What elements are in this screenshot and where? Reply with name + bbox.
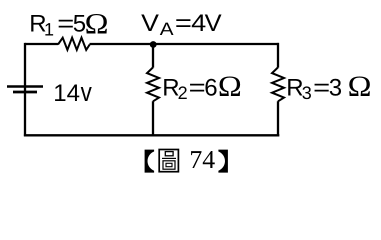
- svg-text:14: 14: [53, 80, 80, 107]
- node VA junction dot: [150, 41, 157, 48]
- resistor R1: [58, 38, 90, 50]
- svg-text:=: =: [189, 74, 206, 101]
- svg-text:=: =: [57, 10, 74, 37]
- svg-text:=: =: [175, 10, 192, 37]
- svg-text:2: 2: [178, 83, 188, 103]
- svg-text:V: V: [205, 10, 222, 37]
- wire top-middle segment: [90, 43, 154, 45]
- wire top-right segment: [153, 43, 279, 45]
- label R3=3ohm: [286, 71, 371, 103]
- svg-text:3: 3: [302, 83, 312, 103]
- label R2=6ohm: [162, 71, 242, 103]
- svg-text:6: 6: [204, 74, 217, 101]
- svg-text:=: =: [313, 74, 330, 101]
- svg-text:V: V: [141, 10, 159, 37]
- battery 14v negative plate: [13, 91, 37, 94]
- battery 14v positive plate: [7, 85, 43, 88]
- svg-text:Ω: Ω: [348, 71, 372, 103]
- wire middle branch upper: [152, 44, 154, 68]
- wire bottom segment: [24, 134, 279, 136]
- caption figure number 74: [189, 145, 215, 174]
- caption CJK character tu (figure): [159, 150, 178, 172]
- resistor R3: [272, 67, 284, 101]
- caption right lenticular bracket: [218, 150, 228, 173]
- svg-text:Ω: Ω: [218, 71, 242, 103]
- svg-text:v: v: [81, 77, 93, 107]
- svg-text:A: A: [160, 19, 174, 39]
- svg-text:Ω: Ω: [85, 8, 109, 40]
- svg-text:74: 74: [189, 145, 215, 174]
- label R1=5ohm: [29, 8, 108, 40]
- label 14v battery value: [53, 77, 92, 107]
- svg-text:1: 1: [44, 19, 54, 39]
- wire right branch lower: [277, 101, 279, 136]
- wire right branch upper: [277, 43, 279, 68]
- resistor R2: [147, 67, 159, 101]
- wire top-left segment: [25, 43, 58, 45]
- wire left branch: [24, 43, 26, 136]
- caption left lenticular bracket: [145, 150, 155, 173]
- label VA=4V node voltage: [141, 10, 222, 39]
- svg-text:3: 3: [329, 74, 342, 101]
- wire middle branch lower: [152, 101, 154, 136]
